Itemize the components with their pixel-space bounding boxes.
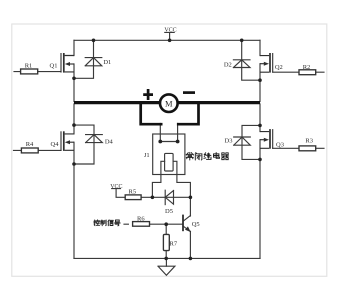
svg-text:R3: R3 [305, 138, 313, 145]
svg-text:R6: R6 [137, 215, 145, 222]
svg-text:R2: R2 [303, 64, 311, 71]
svg-text:R5: R5 [129, 189, 137, 196]
svg-text:R1: R1 [25, 63, 33, 70]
svg-text:Q3: Q3 [276, 142, 284, 149]
svg-text:R7: R7 [170, 241, 178, 248]
svg-text:M: M [165, 98, 173, 108]
svg-text:Q4: Q4 [51, 141, 60, 148]
svg-text:D3: D3 [225, 138, 233, 145]
svg-text:Q1: Q1 [50, 63, 58, 70]
svg-text:J1: J1 [144, 152, 150, 159]
svg-text:VCC: VCC [110, 184, 122, 190]
svg-text:R4: R4 [26, 141, 34, 148]
svg-text:D2: D2 [224, 62, 232, 69]
svg-text:D1: D1 [103, 59, 111, 66]
svg-text:VCC: VCC [164, 27, 176, 33]
svg-text:D4: D4 [105, 139, 114, 146]
svg-text:Q2: Q2 [275, 64, 283, 71]
svg-text:D5: D5 [165, 208, 173, 215]
svg-text:Q5: Q5 [192, 221, 200, 228]
